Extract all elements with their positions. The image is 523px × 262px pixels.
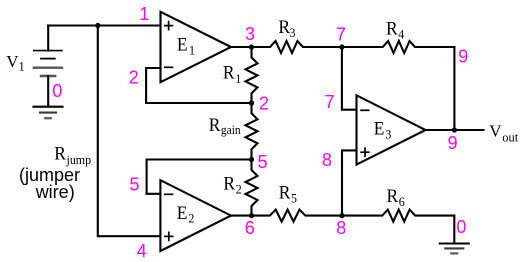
svg-text:R: R (209, 115, 221, 136)
svg-text:gain: gain (221, 123, 241, 138)
svg-text:5: 5 (130, 175, 140, 195)
resistor R4 (342, 41, 455, 53)
svg-text:2: 2 (259, 93, 269, 113)
op-amp input polarity marks (164, 21, 370, 242)
svg-text:E: E (177, 34, 188, 55)
svg-text:R: R (223, 173, 235, 194)
node 8 junction (339, 213, 344, 218)
node 5 junction (249, 157, 254, 162)
label R5 (279, 182, 297, 206)
wire R6 to ground (453, 216, 455, 244)
svg-text:3: 3 (385, 127, 391, 142)
svg-text:3: 3 (245, 24, 255, 44)
wire E1 output to node 3 (231, 46, 252, 48)
svg-text:2: 2 (236, 182, 242, 197)
svg-text:7: 7 (336, 25, 346, 45)
svg-text:R: R (387, 185, 399, 206)
svg-text:0: 0 (456, 217, 466, 237)
op-amp E3 (357, 95, 426, 164)
resistor R1 (246, 47, 258, 103)
node 2 junction (249, 100, 254, 105)
ground (battery) (34, 107, 63, 119)
wire jumper vertical + horizontal to E2 + input (98, 26, 161, 237)
ground (right) (440, 244, 469, 254)
label R2 (223, 173, 241, 197)
svg-text:E: E (177, 202, 188, 223)
svg-text:1: 1 (235, 71, 241, 86)
E2 minus (164, 193, 173, 195)
label R4 (386, 18, 405, 42)
node 1 junction (95, 23, 100, 28)
wire E1 inverting feedback to node 2 (146, 68, 251, 103)
svg-text:0: 0 (52, 81, 62, 101)
label Rgain (209, 115, 241, 138)
svg-text:3: 3 (290, 26, 296, 41)
svg-text:R: R (54, 143, 66, 164)
svg-text:2: 2 (188, 211, 194, 226)
wire node 7 to E3 inverting input (342, 47, 357, 110)
svg-text:9: 9 (448, 133, 458, 153)
svg-text:R: R (279, 182, 291, 203)
svg-text:E: E (374, 118, 385, 139)
label R6 (387, 185, 405, 209)
svg-text:V: V (6, 52, 19, 71)
label E1 (177, 34, 195, 58)
op-amp E2 (160, 180, 231, 251)
E3 plus (360, 147, 369, 157)
svg-text:4: 4 (137, 241, 147, 261)
node 7 junction (339, 44, 344, 49)
label E3 (374, 118, 392, 142)
wire right rail node 9 (453, 47, 455, 130)
svg-text:6: 6 (245, 218, 255, 238)
svg-text:4: 4 (398, 27, 405, 42)
resistor R3 (252, 41, 342, 53)
resistor R2 (246, 160, 258, 216)
node 6 junction (249, 213, 254, 218)
svg-text:5: 5 (258, 152, 268, 172)
label E2 (177, 202, 195, 225)
svg-text:8: 8 (322, 150, 332, 170)
label Rjump (54, 143, 91, 167)
svg-text:out: out (502, 131, 519, 145)
label V1 (6, 52, 25, 74)
node 9 junction (452, 127, 457, 132)
svg-text:wire): wire) (35, 182, 75, 202)
resistor Rgain (246, 103, 258, 160)
wire top rail from battery to E1 + input (48, 24, 160, 26)
svg-text:6: 6 (399, 195, 405, 210)
svg-text:8: 8 (336, 218, 346, 238)
label Vout (489, 122, 519, 145)
E1 minus (164, 66, 173, 68)
E2 plus (164, 232, 173, 242)
wire E3 output to Vout (426, 129, 484, 131)
op-amp E1 (161, 12, 232, 82)
E1 plus (164, 21, 173, 31)
wire node 8 to E3 non-inverting input (342, 150, 357, 215)
wire E2 output to node 6 (231, 215, 252, 217)
svg-text:7: 7 (325, 92, 335, 112)
svg-text:V: V (489, 122, 502, 141)
E3 minus (360, 109, 369, 111)
label R1 (223, 62, 241, 86)
svg-text:R: R (223, 62, 235, 83)
svg-text:R: R (386, 18, 398, 39)
wire E2 inverting feedback from node 5 (147, 160, 252, 194)
svg-text:9: 9 (458, 47, 468, 67)
svg-text:1: 1 (19, 59, 25, 73)
resistor R5 (252, 210, 343, 222)
node 3 junction (249, 44, 254, 49)
svg-text:1: 1 (139, 4, 149, 24)
resistor R6 (342, 210, 454, 222)
label R3 (278, 17, 295, 41)
svg-text:2: 2 (129, 68, 139, 88)
svg-text:1: 1 (189, 43, 195, 58)
svg-text:5: 5 (291, 191, 297, 206)
battery V1 (34, 26, 62, 107)
